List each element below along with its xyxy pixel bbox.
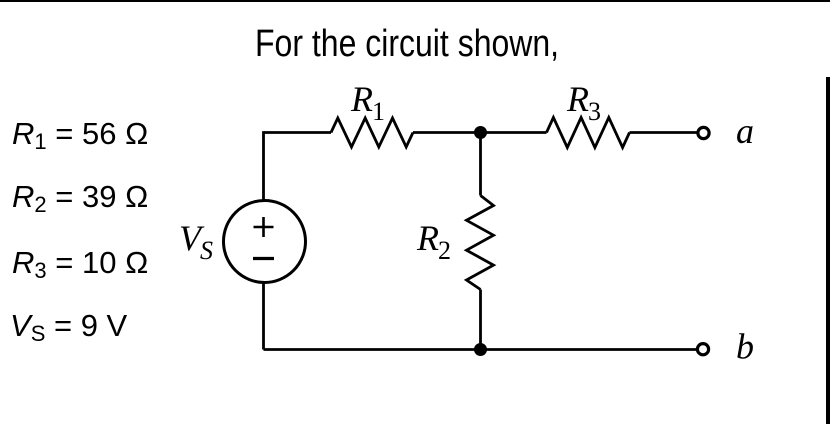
value label VS = 9 V: [10, 310, 127, 341]
top border line: [0, 0, 830, 2]
wire top-left horizontal (source to R1): [264, 133, 332, 202]
resistor R2: [467, 196, 494, 290]
svg-text:R: R: [566, 79, 589, 119]
wire source bottom vertical: [262, 283, 265, 350]
svg-text:R: R: [350, 79, 373, 119]
wire R1 to node A: [413, 131, 481, 134]
svg-text:S: S: [200, 236, 213, 265]
value label R1 = 56 ohm: [12, 118, 148, 149]
wire R3 to terminal a: [630, 131, 698, 134]
title: [255, 25, 559, 63]
voltage source VS: [224, 201, 306, 283]
wire node A down to R2: [479, 133, 482, 196]
svg-text:R: R: [416, 218, 439, 258]
right border bar: [826, 77, 830, 424]
svg-text:a: a: [736, 111, 754, 151]
svg-text:2: 2: [438, 236, 451, 265]
wire bottom horizontal to terminal b: [264, 348, 698, 351]
terminal b open circle: [697, 344, 708, 355]
minus sign of source: [253, 257, 274, 260]
plus sign of source: [254, 217, 274, 237]
terminal a open circle: [698, 127, 709, 138]
node B junction dot: [474, 343, 487, 356]
resistor R1: [331, 118, 413, 147]
node A junction dot: [474, 126, 487, 139]
value label R3 = 10 ohm: [12, 247, 148, 278]
svg-text:3: 3: [588, 97, 601, 126]
wire node A to R3: [481, 131, 547, 134]
svg-text:1: 1: [372, 97, 385, 126]
wire R2 down to node B: [479, 290, 482, 350]
resistor R3: [547, 118, 630, 148]
value label R2 = 39 ohm: [12, 181, 148, 212]
svg-text:b: b: [736, 327, 754, 367]
